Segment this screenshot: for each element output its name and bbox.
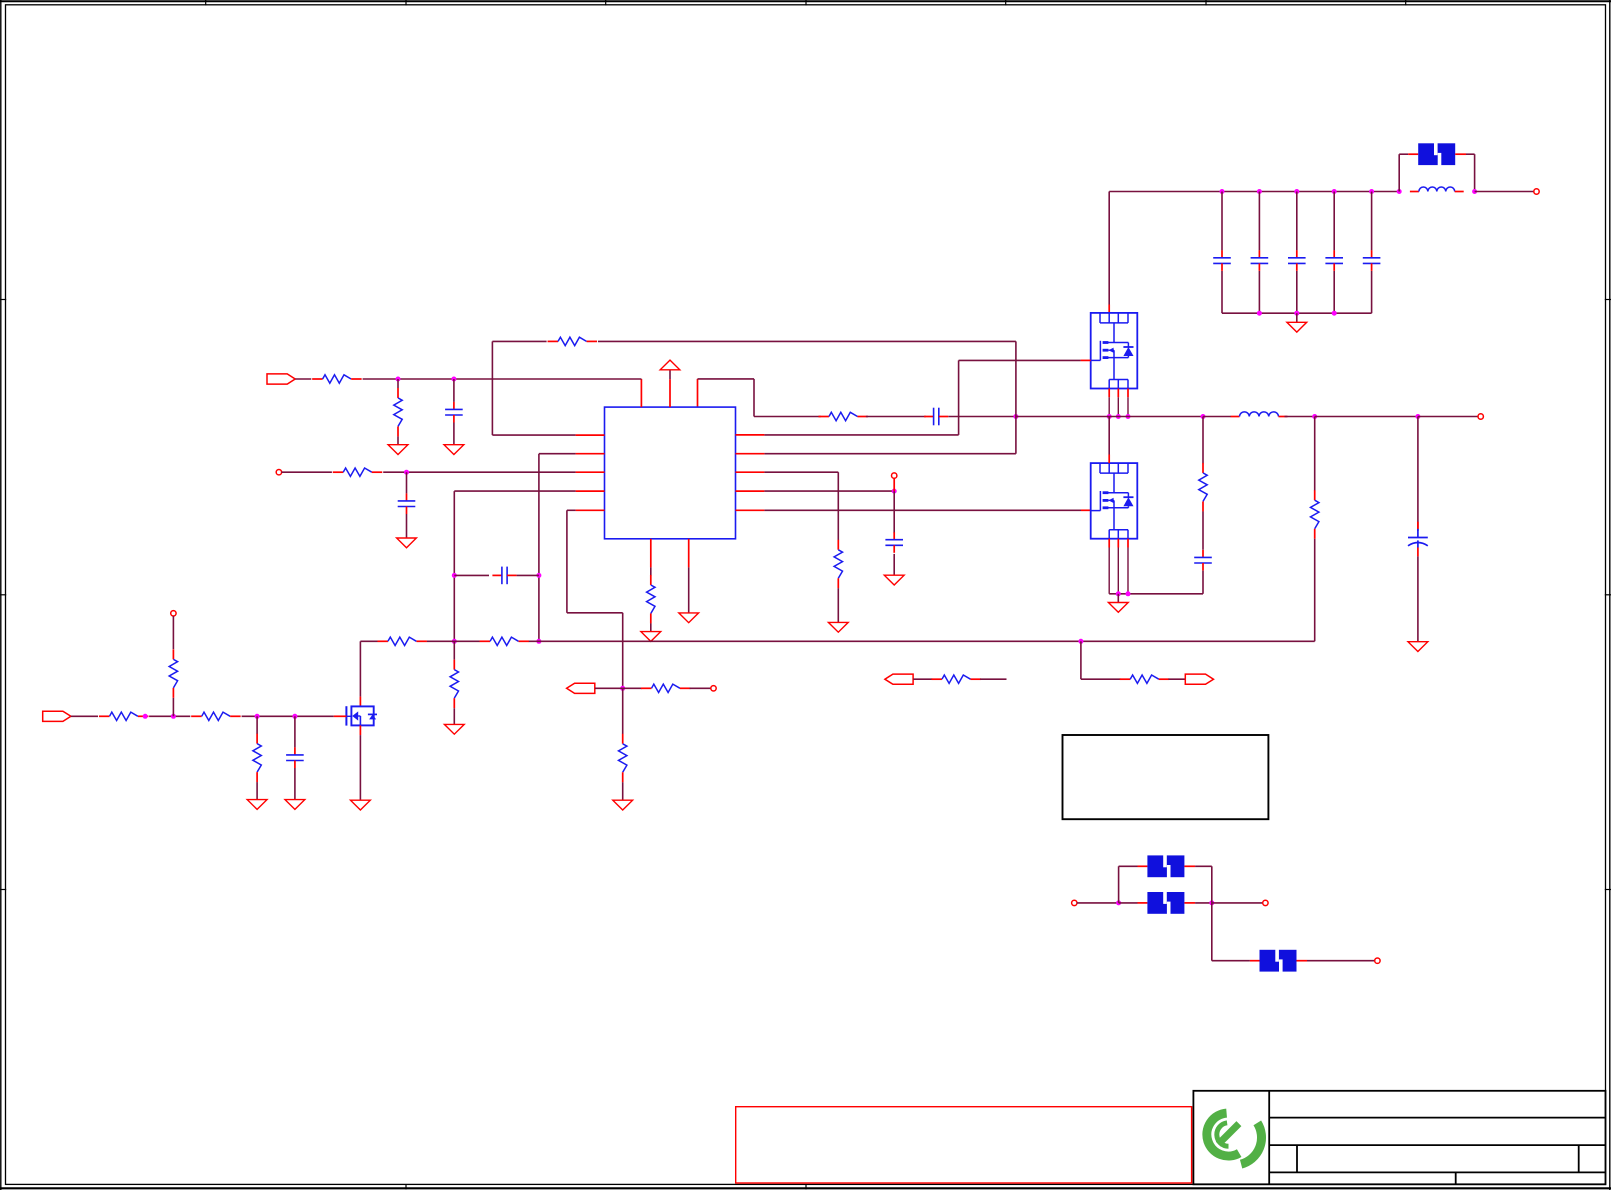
wire cap bank gnd bus	[1222, 312, 1372, 314]
pin F1 left	[1408, 153, 1418, 155]
pin Q2 gate	[1081, 509, 1091, 511]
capacitor C5	[492, 567, 516, 585]
wire agnd	[688, 567, 690, 613]
resistor R7	[450, 660, 458, 709]
wire C8 up	[1417, 417, 1419, 532]
wire BST down	[753, 379, 755, 417]
wire C2 lower	[1258, 271, 1260, 313]
capacitor C4	[1325, 250, 1343, 271]
wire IN1 b	[363, 378, 642, 380]
ground cap bank	[1287, 322, 1307, 332]
wire VCC stem	[669, 370, 671, 379]
node in4 d	[292, 714, 297, 719]
pin U1 BST	[697, 379, 699, 407]
pin F3 left	[1138, 865, 1148, 867]
fuse F4	[1260, 949, 1297, 972]
wire f4 b	[1307, 960, 1375, 962]
wire tp3 b	[172, 698, 174, 716]
capacitor C3	[1288, 250, 1306, 271]
resistor R5	[548, 337, 598, 345]
wire snub c	[1202, 571, 1204, 594]
node VIN junction F1	[1397, 189, 1402, 194]
wire C8 dn	[1417, 556, 1419, 641]
wire R5 right	[598, 340, 1016, 342]
node fuse out	[1209, 900, 1214, 905]
wire R5 down	[1015, 341, 1017, 416]
wire ilim pin	[764, 471, 838, 473]
title block	[1193, 1091, 1605, 1185]
port P2	[1263, 900, 1268, 905]
wire R5 left drop	[491, 341, 493, 435]
wire out bus	[1315, 416, 1418, 418]
port P3	[1375, 958, 1380, 963]
wire f2 b	[1195, 902, 1212, 904]
capacitor C6	[885, 532, 903, 553]
pin U1 bottom pins	[651, 539, 689, 568]
wire fb pin	[567, 509, 576, 511]
wire R11 gnd	[837, 588, 839, 622]
ground Q2	[1108, 603, 1128, 613]
wire tp3	[172, 616, 174, 649]
capacitor C1	[1213, 250, 1231, 271]
wire lg pin	[764, 509, 1081, 511]
capacitor C3	[445, 402, 463, 423]
wire IN2 a	[281, 471, 332, 473]
wire C4 up	[406, 472, 408, 493]
wire C2 upper	[1258, 192, 1260, 251]
wire C5 lower	[1371, 271, 1373, 313]
node C4 top	[1332, 189, 1337, 194]
wire C4 upper	[1333, 192, 1335, 251]
resistor R11	[834, 540, 842, 589]
capacitor C7	[1194, 550, 1212, 571]
wire c10 a	[294, 716, 296, 747]
wire SW bus left	[1016, 416, 1203, 418]
ground C10	[285, 800, 305, 810]
wire in4 a	[71, 715, 98, 717]
pin U1 VCC	[669, 379, 671, 407]
capacitor C8	[1408, 522, 1428, 557]
wire R6 to C9	[866, 416, 926, 418]
wire VIN drop	[1108, 192, 1110, 305]
ground R9	[613, 800, 633, 810]
wire IN2 b	[383, 471, 575, 473]
wire C5 upper	[1371, 192, 1373, 251]
wire C3 dn	[453, 423, 455, 445]
resistor R6	[818, 412, 868, 420]
wire rt set	[650, 567, 652, 575]
table frame	[1063, 735, 1269, 819]
node pgnd a	[1116, 591, 1121, 596]
wire to out port	[1418, 416, 1478, 418]
wire R9 gnd	[622, 782, 624, 800]
wire snub b	[1202, 511, 1204, 549]
wire bridge left	[454, 574, 489, 576]
ground Q3	[351, 800, 371, 810]
logo	[1207, 1113, 1262, 1164]
node C3 top	[1294, 189, 1299, 194]
wire R2 feed	[397, 379, 399, 388]
transistor Q3	[346, 706, 377, 725]
resistor R17	[191, 712, 241, 720]
IC U1	[605, 407, 736, 539]
wire mid line c	[529, 640, 1315, 642]
wire pgnd stem	[1117, 594, 1119, 603]
port IN2	[276, 470, 281, 475]
wire snub a	[1202, 417, 1204, 464]
wire R10 gnd	[650, 623, 652, 631]
wire C1 upper	[1221, 192, 1223, 251]
resistor R9	[619, 734, 627, 783]
wire F1 right down	[1474, 154, 1476, 191]
wire fb gnd drop	[622, 688, 624, 734]
wire r15 end	[980, 678, 1006, 680]
frame left zone ticks	[0, 300, 6, 890]
wire C6 dn	[893, 554, 895, 575]
fuse F3	[1147, 855, 1184, 878]
capacitor C4	[398, 493, 416, 514]
wire fb drop	[566, 510, 568, 613]
node mid fb	[1078, 639, 1083, 644]
node mid b	[536, 639, 541, 644]
node C2 top	[1257, 189, 1262, 194]
resistor R12	[1199, 463, 1207, 512]
pin Q3 drain	[359, 697, 361, 707]
resistor R18	[169, 649, 177, 698]
port TP3	[171, 611, 176, 616]
node VOUT b	[1415, 414, 1420, 419]
wire Q1 gate	[959, 359, 1081, 361]
wire r19 b	[256, 782, 258, 800]
wire mid drop	[1080, 641, 1082, 679]
wire f2 a	[1119, 902, 1138, 904]
pin F1 right	[1455, 153, 1466, 155]
wire C3 upper	[1296, 192, 1298, 251]
ground R2	[388, 445, 408, 455]
node gnd bus a	[1257, 311, 1262, 316]
wire C4 lower	[1333, 271, 1335, 313]
resistor R10	[647, 575, 655, 624]
transistor Q1	[1091, 313, 1138, 389]
wire f4 a	[1212, 960, 1250, 962]
wire p1	[1077, 902, 1119, 904]
port VIN	[1534, 189, 1539, 194]
capacitor C9	[924, 408, 948, 426]
wire pgnd bus	[1109, 593, 1203, 595]
inductor L1	[1410, 187, 1464, 191]
wire f4 down	[1211, 903, 1213, 961]
resistor R2	[394, 388, 402, 437]
wire C6 up	[893, 491, 895, 533]
wire f3 a	[1119, 865, 1138, 867]
wire VIN bus	[1109, 191, 1399, 193]
wire in4 c	[242, 715, 334, 717]
frame bottom zone ticks	[406, 1185, 806, 1190]
wire mid left drop	[359, 641, 361, 696]
wire C3 lower	[1296, 271, 1298, 313]
resistor R14	[1120, 675, 1170, 683]
power VCC	[660, 360, 680, 370]
wire mid line a	[360, 640, 377, 642]
wire fb across	[567, 612, 623, 614]
node gnd bus b	[1294, 311, 1299, 316]
wire Q2 source drops	[1109, 548, 1128, 594]
wire sw to L2	[1203, 416, 1231, 418]
node IN2 c4	[404, 470, 409, 475]
wire bridge right	[517, 574, 539, 576]
port TP1	[711, 686, 716, 691]
wire in4 b	[149, 715, 190, 717]
wire L1 pin wire	[492, 434, 575, 436]
wire L2 to out	[1285, 416, 1315, 418]
node SW d	[1201, 414, 1206, 419]
port FB	[567, 683, 595, 693]
resistor R8	[641, 684, 691, 692]
resistor R3	[333, 468, 383, 476]
wire fbdiv up	[1314, 417, 1316, 491]
ground R19	[247, 800, 267, 810]
wire R7 gnd	[453, 708, 455, 724]
resistor R13	[1311, 490, 1319, 539]
node mid a	[452, 639, 457, 644]
pin F4 right	[1297, 960, 1308, 962]
fuse F2	[1147, 892, 1184, 915]
node SW a	[1107, 414, 1112, 419]
wire r14 to port	[1168, 678, 1185, 680]
wire ss drop	[453, 491, 455, 641]
wire mid line b	[427, 640, 480, 642]
wire to VIN port	[1475, 191, 1534, 193]
pin Q3 source	[359, 725, 361, 735]
port TP2	[892, 473, 897, 478]
node VOUT a	[1312, 414, 1317, 419]
wire fb r right	[623, 687, 642, 689]
wire gate drive link	[764, 434, 958, 436]
wire f3 down	[1211, 866, 1213, 903]
ground C3	[444, 445, 464, 455]
pin F4 left	[1250, 960, 1260, 962]
pin TP2	[893, 478, 895, 491]
wire f3 b	[1195, 865, 1212, 867]
wire C4 dn	[406, 514, 408, 538]
pin Q1 source pins	[1109, 389, 1128, 398]
frame top zone ticks	[206, 0, 1406, 6]
wire Q1 source drops	[1109, 397, 1128, 416]
pin U1 right pins	[736, 435, 765, 510]
node fuse in	[1116, 900, 1121, 905]
fuse F1	[1418, 143, 1455, 166]
pin Q2 source pins	[1109, 539, 1128, 548]
port IN3	[885, 674, 913, 684]
resistor R1	[312, 375, 362, 383]
node in4 a	[143, 714, 148, 719]
wire gate drive drop	[958, 360, 960, 435]
wire BST up	[698, 378, 755, 380]
wire SW to pin	[1015, 417, 1017, 454]
wire F1 right	[1466, 153, 1475, 155]
wire F1 left up	[1398, 154, 1400, 191]
node C1 top	[1220, 189, 1225, 194]
node gnd bus c	[1332, 311, 1337, 316]
wire q3 src gnd	[359, 735, 361, 800]
wire R7 feed	[453, 641, 455, 659]
node bridge a	[452, 573, 457, 578]
pin F3 right	[1184, 865, 1195, 867]
wire c10 b	[294, 768, 296, 800]
wire BST right	[754, 416, 821, 418]
wire C1 lower	[1221, 271, 1223, 313]
wire fbdiv dn	[1314, 539, 1316, 642]
resistor R21	[480, 637, 530, 645]
wire p2	[1212, 902, 1263, 904]
inductor L2	[1231, 412, 1288, 417]
port IN1	[267, 374, 295, 384]
pin Q3 gate	[334, 715, 347, 717]
text box	[736, 1107, 1192, 1183]
wire Q2 drain	[1108, 417, 1110, 455]
wire pin link	[764, 453, 1016, 455]
node SW c	[1126, 414, 1131, 419]
wire comp drop	[538, 454, 540, 642]
node IN1 r2	[396, 377, 401, 382]
ground C6	[884, 575, 904, 585]
pin Q2 drain	[1108, 455, 1110, 464]
node in4 c	[255, 714, 260, 719]
port VOUT	[1478, 414, 1483, 419]
port IN4	[43, 711, 71, 721]
ground U1	[679, 613, 699, 623]
node in4 b	[171, 714, 176, 719]
wire mid to r14	[1081, 678, 1121, 680]
resistor R15	[931, 675, 981, 683]
wire ss pin	[454, 490, 575, 492]
pin F2 left	[1138, 902, 1148, 904]
node fb	[620, 686, 625, 691]
wire R2 gnd	[397, 437, 399, 445]
capacitor C5	[1363, 250, 1381, 271]
wire f3 up	[1118, 866, 1120, 903]
node SW bst	[1013, 414, 1018, 419]
wire comp pin	[539, 453, 576, 455]
node SW b	[1116, 414, 1121, 419]
wire F1 left	[1399, 153, 1408, 155]
node C5 top	[1369, 189, 1374, 194]
wire gnd stem	[1296, 313, 1298, 322]
capacitor C2	[1251, 250, 1269, 271]
resistor R20	[377, 637, 427, 645]
node IN1 c3	[451, 377, 456, 382]
port P1	[1072, 900, 1077, 905]
ground R10	[641, 632, 661, 642]
pin Q1 gate	[1081, 359, 1091, 361]
transistor Q2	[1091, 463, 1138, 539]
pin F2 right	[1184, 902, 1195, 904]
wire IN1 a	[295, 378, 311, 380]
ground R7	[444, 724, 464, 734]
ground R11	[828, 622, 848, 632]
wire R5 left	[492, 340, 546, 342]
node bridge b	[536, 573, 541, 578]
wire ilim drop	[837, 472, 839, 540]
resistor R16	[99, 712, 149, 720]
wire r19 a	[256, 716, 258, 734]
wire fb drop2	[622, 613, 624, 689]
resistor R19	[253, 734, 261, 783]
wire fb port	[595, 687, 623, 689]
node pgnd b	[1126, 591, 1131, 596]
node L1 out	[1472, 189, 1477, 194]
wire C3 up	[453, 379, 455, 402]
wire C9 to SW	[948, 416, 1016, 418]
pin U1 EN top	[640, 379, 642, 407]
capacitor C10	[286, 747, 304, 768]
pin U1 left pins	[576, 435, 605, 510]
port OUT1	[1185, 674, 1213, 684]
ground C4	[397, 538, 417, 548]
wire in3 a	[913, 678, 932, 680]
wire vreg pin	[764, 490, 894, 492]
node vreg	[892, 489, 897, 494]
pin Q1 drain	[1108, 305, 1110, 313]
ground C8	[1408, 642, 1428, 652]
wire r8 to tp	[690, 687, 711, 689]
frame right zone ticks	[1605, 300, 1611, 890]
